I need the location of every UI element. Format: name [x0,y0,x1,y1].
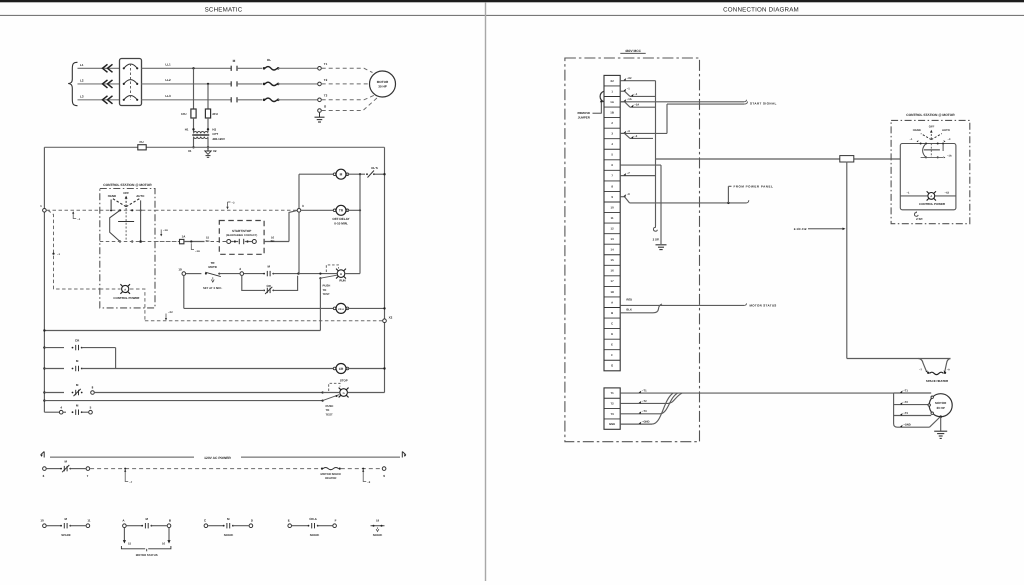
transformer CPT windings [194,132,209,134]
svg-text:~1A: ~1A [195,250,200,253]
svg-text:~T3: ~T3 [903,412,908,415]
wire X2 to rail [207,138,209,148]
wire TR contact to 2 [219,273,239,275]
svg-text:T3: T3 [324,94,328,98]
node 1 terminal [43,209,47,213]
svg-text:19: 19 [178,267,182,271]
terminal A [123,524,127,528]
tag ~1A right of station [160,230,162,236]
svg-text:2FU: 2FU [212,112,217,116]
coil M [333,173,336,176]
svg-text:JUMPER: JUMPER [578,116,591,120]
wire ~1A stub b [620,101,624,103]
terminal 10 [43,524,47,528]
wire CR coil to rail [347,368,384,370]
svg-text:1FU: 1FU [181,112,186,116]
svg-text:OFF: OFF [929,125,935,129]
contact M NC (stop rung) [72,392,74,394]
terminal D [249,524,253,528]
svg-text:M: M [233,59,236,63]
selector right bottom dots [925,156,927,158]
jumper between terminals 1 and 1A [600,91,604,102]
selector HAND wire [110,210,120,241]
wire L3 to disconnect [78,99,120,101]
dashed wires at control power light [100,288,121,290]
svg-text:30 HP: 30 HP [378,85,387,89]
cable 2-1/C #12 vertical [846,162,848,359]
wire L1 junction to 1FU [193,68,195,109]
svg-text:14: 14 [611,248,615,252]
svg-text:OFF DELAY: OFF DELAY [332,217,350,221]
svg-text:15: 15 [611,258,615,262]
space heater drop right [945,359,951,372]
terminal 7 (120V) [86,467,90,471]
contactor M power contact pole 3 [230,97,232,102]
disconnect chevrons line 3 [103,96,113,104]
svg-text:X2: X2 [213,149,217,153]
arrow right end 120V [402,452,406,458]
wire 10-M [47,525,61,527]
wire ~GND to motor [898,426,930,428]
motor lead G (dashed) [322,98,378,111]
svg-text:CONTROL STATION @ MOTOR: CONTROL STATION @ MOTOR [103,183,152,187]
wire ~T3 to motor [894,415,932,417]
wire CR contact to corner [82,347,116,349]
svg-text:16: 16 [611,269,615,273]
svg-text:~1: ~1 [634,93,638,96]
svg-text:START SIGNAL: START SIGNAL [750,101,777,105]
terminal 8 [91,391,95,395]
contact M spare1 [60,525,62,527]
svg-text:LL2: LL2 [165,78,171,82]
svg-text:SPARE: SPARE [224,533,234,537]
svg-text:~X2: ~X2 [627,77,632,80]
tag ~T1 (mcc) [639,391,642,394]
svg-text:HAND: HAND [108,194,116,198]
svg-text:~1A: ~1A [947,155,952,158]
wire ~T1 to motor [894,392,932,394]
wire ~9 stub [620,196,624,198]
svg-text:SPARE: SPARE [61,533,71,537]
terminal 11 [86,524,90,528]
dashed field wire 9 [341,468,382,470]
svg-text:SPARE: SPARE [310,533,320,537]
svg-text:~1A: ~1A [634,104,639,107]
svg-text:E: E [288,519,290,523]
coil CR [333,367,336,370]
junction L1-1FU [192,67,194,69]
svg-text:1A: 1A [610,100,614,104]
wire A-M [127,525,142,527]
motor lead T2 (dashed) [322,83,370,85]
svg-text:L3: L3 [80,94,84,98]
svg-text:SD: SD [206,239,210,243]
svg-text:~GND: ~GND [903,424,911,427]
rung STOP light [43,391,45,393]
svg-text:STOP: STOP [340,378,348,382]
svg-text:19: 19 [376,519,380,523]
terminal 1A (square) [180,239,184,243]
selector right HAND wire [923,144,926,158]
wire E-CRA [292,525,308,527]
motor M1 (connection) [929,394,952,417]
ground at MCC [656,244,667,246]
wire selector to node 3 (dashed) [155,241,179,243]
svg-text:RED: RED [626,299,632,302]
svg-text:TR: TR [339,209,344,213]
contactor M power contact pole 1 [230,66,232,71]
wire 6 to M NC [47,468,61,470]
wire M-11 [70,525,85,527]
terminal 19 [182,272,186,276]
terminal 4 [59,410,63,414]
terminal 2 [240,272,244,276]
wire 9 end hook [747,200,749,203]
pilot light RUN [342,274,346,278]
svg-text:T1: T1 [324,62,328,66]
wire T1 run to motor [620,392,893,394]
svg-text:C: C [611,321,613,325]
wire X1 to rail [193,138,195,148]
wire junction to RUN light [299,273,337,275]
dashed field wire 7 [90,468,321,470]
coil TR [333,209,336,212]
svg-text:X2: X2 [389,316,393,320]
wire 19 to TR contact [186,273,201,275]
contact M (CR rung) [72,368,74,370]
svg-text:FROM POWER PANEL: FROM POWER PANEL [734,185,774,189]
terminal F [333,524,337,528]
selector center dashed [125,208,127,242]
terminal E [288,524,292,528]
svg-text:MOTOR: MOTOR [377,80,389,84]
remove jumper leader arrow [593,102,602,114]
rung M to CR coil [43,367,45,369]
svg-text:T2: T2 [610,401,614,405]
svg-text:~T3: ~T3 [642,410,647,413]
control station box (dash-dot) [100,189,155,308]
svg-text:RUN: RUN [339,279,345,283]
motor terminal dots [931,396,933,398]
transformer CPT primary H1 dot [192,128,194,130]
space heater drop left [919,359,927,372]
terminal 6 (120V) [43,467,47,471]
wire RED to motor status [620,304,744,306]
svg-text:SPACE HEATER: SPACE HEATER [926,379,949,383]
ground at terminal G [319,113,321,117]
svg-text:AUTO: AUTO [136,194,145,198]
svg-text:F: F [611,353,613,357]
selector cross mark [118,221,134,223]
motor status hook [744,303,747,305]
svg-text:480V MCC: 480V MCC [625,49,642,53]
wire ~3 stub b [620,132,624,134]
tag ~3 stub b [631,136,634,139]
svg-text:M: M [340,173,343,177]
tag ~3 stub a [624,131,627,134]
tag ~T3 (motor) [900,413,903,416]
svg-text:OFF: OFF [123,191,129,195]
start signal hook [744,100,748,104]
svg-text:2 SP.: 2 SP. [916,217,923,221]
svg-text:11: 11 [87,519,91,523]
tag ~1A stub a [624,99,627,102]
svg-text:SPARE: SPARE [373,533,383,537]
svg-text:TEST: TEST [326,412,333,416]
test dashed box at RUN light [326,265,338,272]
svg-text:~T2: ~T2 [903,401,908,404]
spare curl [653,226,657,231]
svg-text:11: 11 [611,216,614,220]
svg-text:480-120V: 480-120V [212,137,225,141]
cable tap block [840,156,854,162]
svg-text:2-1/C #12: 2-1/C #12 [794,227,807,231]
wire RUN light right [345,273,360,275]
spare collector vertical [655,81,657,226]
wire LL1 [142,67,232,69]
selector right AUTO wire [942,144,944,152]
motor ground wire [940,417,942,431]
svg-text:(MAINTAINED CONTACT): (MAINTAINED CONTACT) [226,234,257,237]
terminal 9 (120V) [382,467,386,471]
contact M NC (120V) [60,468,62,470]
tag ~7 [125,470,128,481]
wire ~3 stub [620,132,667,134]
wire B down 16 [168,528,170,541]
terminal C [204,524,208,528]
wire ~6 stub to ground [620,164,661,166]
disconnect chevrons line 1 [103,64,113,72]
svg-text:G: G [343,392,345,395]
wire T2 [620,402,668,404]
start/stop maintained contact [227,240,231,244]
svg-text:G: G [611,364,613,368]
wire C-M [208,525,223,527]
station inner box [900,144,956,210]
control power light (right) [932,197,936,201]
svg-text:T3: T3 [610,412,614,416]
svg-text:T1: T1 [610,391,614,395]
svg-text:~1A: ~1A [627,98,632,101]
svg-text:LL1: LL1 [165,62,171,66]
riser node3 to M coil rung [298,174,300,208]
svg-text:H2: H2 [212,127,216,131]
svg-text:CONTROL STATION @ MOTOR: CONTROL STATION @ MOTOR [906,113,955,117]
svg-text:B: B [611,311,613,315]
svg-text:CONTROL POWER: CONTROL POWER [919,202,946,206]
tag ~T1 (motor) [900,391,903,394]
tag ~T3 (mcc) [639,411,642,414]
bracket motor status [121,546,145,549]
svg-text:SET AT 3 SEC.: SET AT 3 SEC. [203,286,222,290]
tag ~1A stub b [631,105,634,108]
svg-text:~3: ~3 [627,130,631,133]
space heater element [927,372,929,374]
svg-text:MOTOR STATUS: MOTOR STATUS [136,553,158,557]
terminal B [167,524,171,528]
svg-text:12: 12 [611,226,615,230]
svg-text:~9: ~9 [627,193,631,196]
contact CR (seal) [72,347,74,349]
riser to node 3 [289,210,297,241]
svg-text:~X2: ~X2 [168,311,173,314]
selector AUTO wire [140,200,142,241]
svg-text:~GND: ~GND [642,421,650,424]
120V AC POWER line [50,456,194,458]
rung CR seal [43,346,45,348]
svg-text:~1A: ~1A [163,229,168,232]
wire TR coil right [347,209,360,211]
svg-text:~X2: ~X2 [945,191,950,194]
svg-text:1B: 1B [610,110,614,114]
tag ~1 stub a [624,89,627,92]
svg-text:A: A [124,288,126,291]
svg-text:13: 13 [611,237,615,241]
station light rung [900,195,956,197]
selector switch HOA (right station) [921,134,932,140]
wire X2 (dashed) to X2 terminal [145,320,383,322]
wire ~T2 to motor [894,404,930,406]
test contact for RUN [319,277,321,279]
wire T3 [620,413,660,415]
svg-text:START/STOP: START/STOP [232,229,251,233]
dashed drop node1 to control power [48,210,100,289]
svg-text:BLK: BLK [626,309,632,312]
motor lead T3 (dashed) [322,95,376,100]
tag ~3 on wire 3 [226,207,228,209]
wire to 7 [70,468,85,470]
contact M spare2 [223,525,225,527]
svg-text:CR: CR [339,367,344,371]
overload OL pole 3 [263,99,266,102]
overload OL pole 2 [263,83,266,86]
wire LL2 [142,83,208,85]
test contact for STOP [323,395,340,401]
tag ~X2 on X2 wire [165,314,167,320]
wire ~1 stub [620,90,624,92]
MCC motor terminal strip TB2 [604,388,620,429]
tag ~GND (motor) [900,425,903,428]
wire 4 to M [63,411,66,413]
svg-text:2 SP.: 2 SP. [653,238,660,242]
svg-text:~1: ~1 [627,88,631,91]
branch CR around M [242,276,263,291]
start signal pair second wire [667,103,744,105]
svg-text:L1: L1 [80,63,84,67]
wire CRA-F [318,525,333,527]
selector right center dashed [930,144,932,158]
wire 2 to M aux [244,273,264,275]
svg-text:~7: ~7 [627,172,631,175]
tag ~1 on drop [52,253,54,255]
svg-text:MOTOR: MOTOR [935,401,947,405]
wire 19 down to CR-A [183,276,185,309]
wire M to 5 [82,411,89,413]
svg-text:X2: X2 [610,79,614,83]
motor cable fan vertical [894,393,898,427]
svg-text:10: 10 [611,205,615,209]
wire 1 rung (dashed) node1 to control station [47,209,100,211]
wire to coil M [299,173,335,175]
disconnect chevrons line 2 [103,80,113,88]
wire BLK joins RED [620,312,653,314]
tag ~1 stub b [631,94,634,97]
transformer CPT primary H2 dot [207,128,209,130]
contact M status [141,525,143,527]
junction L2-2FU [207,83,209,85]
node 3 terminal [297,209,301,213]
wire ~X2 stub [620,80,655,82]
tag ~T2 (motor) [900,402,903,405]
rail corner to terminal 4 [44,411,59,413]
coil CR-A [333,307,336,310]
contact CR (branch) [263,290,265,292]
wire M-D [233,525,249,527]
timed contact TR [205,273,207,275]
wire into start/stop box [211,241,227,243]
wire STOP light to rail [348,392,385,394]
svg-text:OL: OL [267,58,271,62]
wire A down 15 [123,528,125,541]
tag ~9 [363,470,366,481]
terminal X2 on right rail [383,319,387,323]
svg-text:GND: GND [609,422,615,426]
svg-text:F: F [335,519,337,523]
from power panel branch [727,202,729,204]
wire ~3 riser [666,104,668,133]
wire ~7 stub [620,175,655,177]
incoming line brace [68,62,77,105]
svg-text:E: E [611,343,613,347]
terminal G [318,109,322,113]
motor ground symbol [934,430,947,432]
motor lead T1 (dashed) [322,68,373,72]
selector switch HOA (left station) [110,200,112,210]
svg-text:A: A [611,300,613,304]
branch CR return [273,276,297,291]
svg-text:30 HP: 30 HP [937,406,945,410]
fuse 1FU [191,109,196,118]
svg-text:SCHEMATIC: SCHEMATIC [205,7,243,14]
wire CR-A to rail [347,307,384,309]
svg-text:CR-A: CR-A [338,308,344,311]
left rail [43,147,45,412]
svg-text:~T1: ~T1 [642,389,647,392]
circuit breaker CB (3-pole) [120,59,142,106]
control power light PL1 [126,290,130,294]
test wire to bottom rail [319,278,321,330]
ground at X2 [207,147,209,151]
test dashed box at STOP light [329,383,340,391]
svg-text:AUTO: AUTO [942,128,951,132]
svg-text:CR-A: CR-A [309,517,317,521]
svg-text:OL'S: OL'S [371,166,378,170]
rung test (stop) [43,399,45,401]
svg-text:L2: L2 [80,79,84,83]
svg-text:MOTOR STATUS: MOTOR STATUS [750,303,777,307]
wire L1 to disconnect [78,67,120,69]
svg-text:120V AC POWER: 120V AC POWER [204,456,231,460]
tag ~1A below wire [191,243,194,249]
tag ~9 stub [624,194,627,197]
tag ~X2 stub [624,78,627,81]
contactor M power contact pole 2 [230,81,232,86]
bottom rail of control box [44,330,320,332]
terminal T2 [318,82,322,86]
svg-text:D: D [611,332,613,336]
arrow left end 120V [41,452,45,458]
pilot light STOP [344,393,348,397]
